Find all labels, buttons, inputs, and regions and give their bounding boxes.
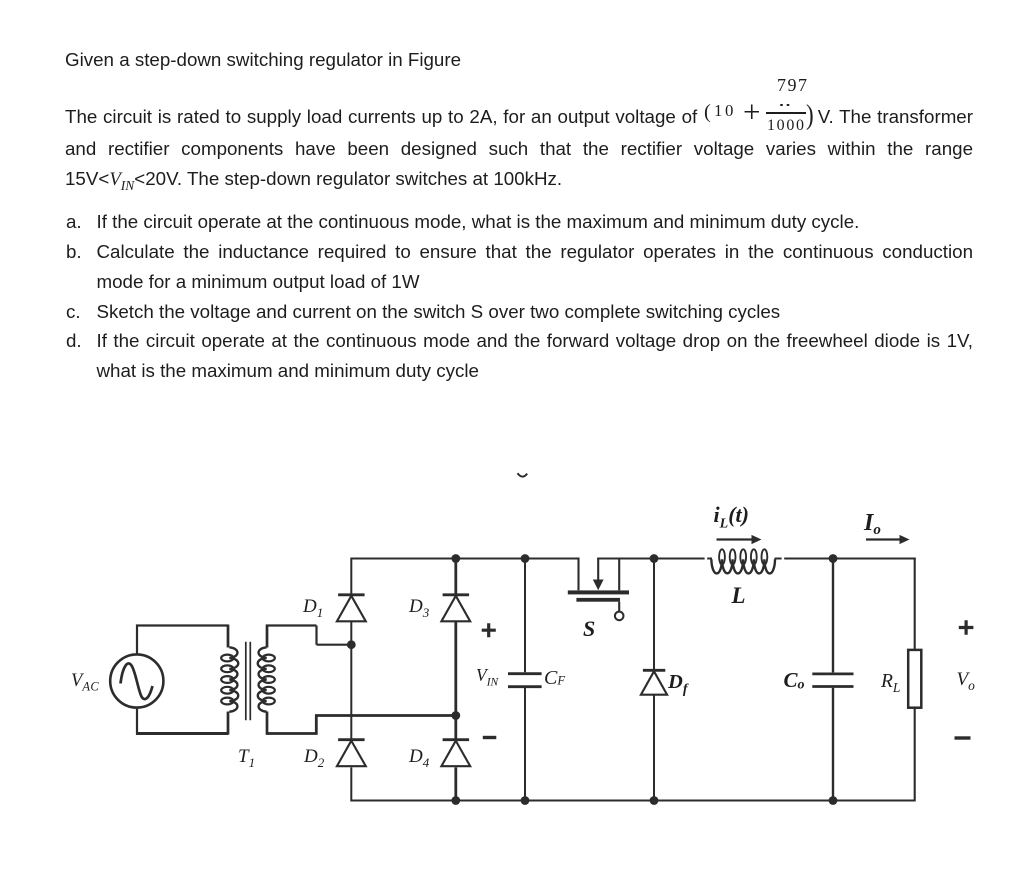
wire top rail left <box>351 557 578 559</box>
label CF <box>544 668 565 688</box>
resistor RL <box>908 650 921 708</box>
label VAC <box>71 672 99 693</box>
wire D3 D4 column <box>454 558 457 802</box>
label D3 <box>409 597 429 619</box>
list item d line 1 <box>97 326 974 356</box>
wire VAC bottom <box>136 732 228 735</box>
transformer T1 secondary winding <box>258 647 267 711</box>
wire CF column <box>524 559 526 802</box>
stray breve mark <box>518 473 528 476</box>
sine wave glyph <box>121 663 153 699</box>
wire D1 column <box>350 558 352 802</box>
diode D3 <box>443 593 470 596</box>
source VAC circle <box>110 654 163 707</box>
list item a <box>97 207 860 237</box>
diode Df <box>643 669 665 672</box>
wire secondary bottom <box>266 716 318 735</box>
capacitor CF <box>508 674 542 687</box>
transformer T1 core <box>246 642 251 721</box>
numerator 797 of the fraction <box>777 76 809 94</box>
paragraph line 3 <box>65 134 973 164</box>
label Co <box>784 670 805 693</box>
label iL(t) <box>714 504 749 531</box>
label D1 <box>303 597 323 619</box>
paragraph line 4 <box>65 164 562 200</box>
wire Df column <box>653 559 655 802</box>
wire bottom rail <box>351 799 914 801</box>
label Df <box>668 672 687 697</box>
label D2 <box>304 747 324 769</box>
wire Co column <box>832 559 834 802</box>
list item b line 1 <box>97 237 974 267</box>
inductor L coil <box>711 559 775 573</box>
diode D1 <box>338 593 365 596</box>
minus sign VIN <box>483 736 497 739</box>
label S <box>583 618 595 640</box>
label T1 <box>238 747 255 769</box>
arrow Io <box>866 538 900 540</box>
paragraph line 2 with math fraction <box>65 102 973 132</box>
label D4 <box>409 747 429 769</box>
wire bridge middle rail <box>315 714 456 717</box>
wire VAC top <box>136 624 228 626</box>
label L <box>732 584 746 607</box>
wire top rail right <box>775 557 916 559</box>
wire secondary stubs <box>266 625 269 735</box>
wire top rail mid <box>597 557 712 559</box>
diode D4 <box>443 738 470 741</box>
list item d line 2 <box>97 356 479 386</box>
plus sign VIN <box>482 623 496 637</box>
wire right column <box>914 558 916 802</box>
plus sign Vo <box>959 620 974 635</box>
capacitor Co <box>812 674 853 687</box>
minus sign Vo <box>955 736 971 739</box>
arrow iL(t) <box>717 538 753 540</box>
list item c <box>97 297 781 327</box>
transformer T1 primary winding <box>229 647 238 711</box>
label VIN <box>476 667 498 689</box>
paragraph line 1 <box>65 45 461 75</box>
diode D2 <box>338 738 365 741</box>
list item b line 2 <box>97 267 420 297</box>
wire primary stubs <box>227 625 230 735</box>
label RL <box>881 672 900 694</box>
junction dots <box>451 554 460 563</box>
label Vo <box>957 670 975 692</box>
label Io <box>864 511 881 538</box>
wire secondary top <box>266 626 351 645</box>
wire VAC left vertical <box>136 625 138 735</box>
switch S (MOSFET) <box>577 558 579 591</box>
